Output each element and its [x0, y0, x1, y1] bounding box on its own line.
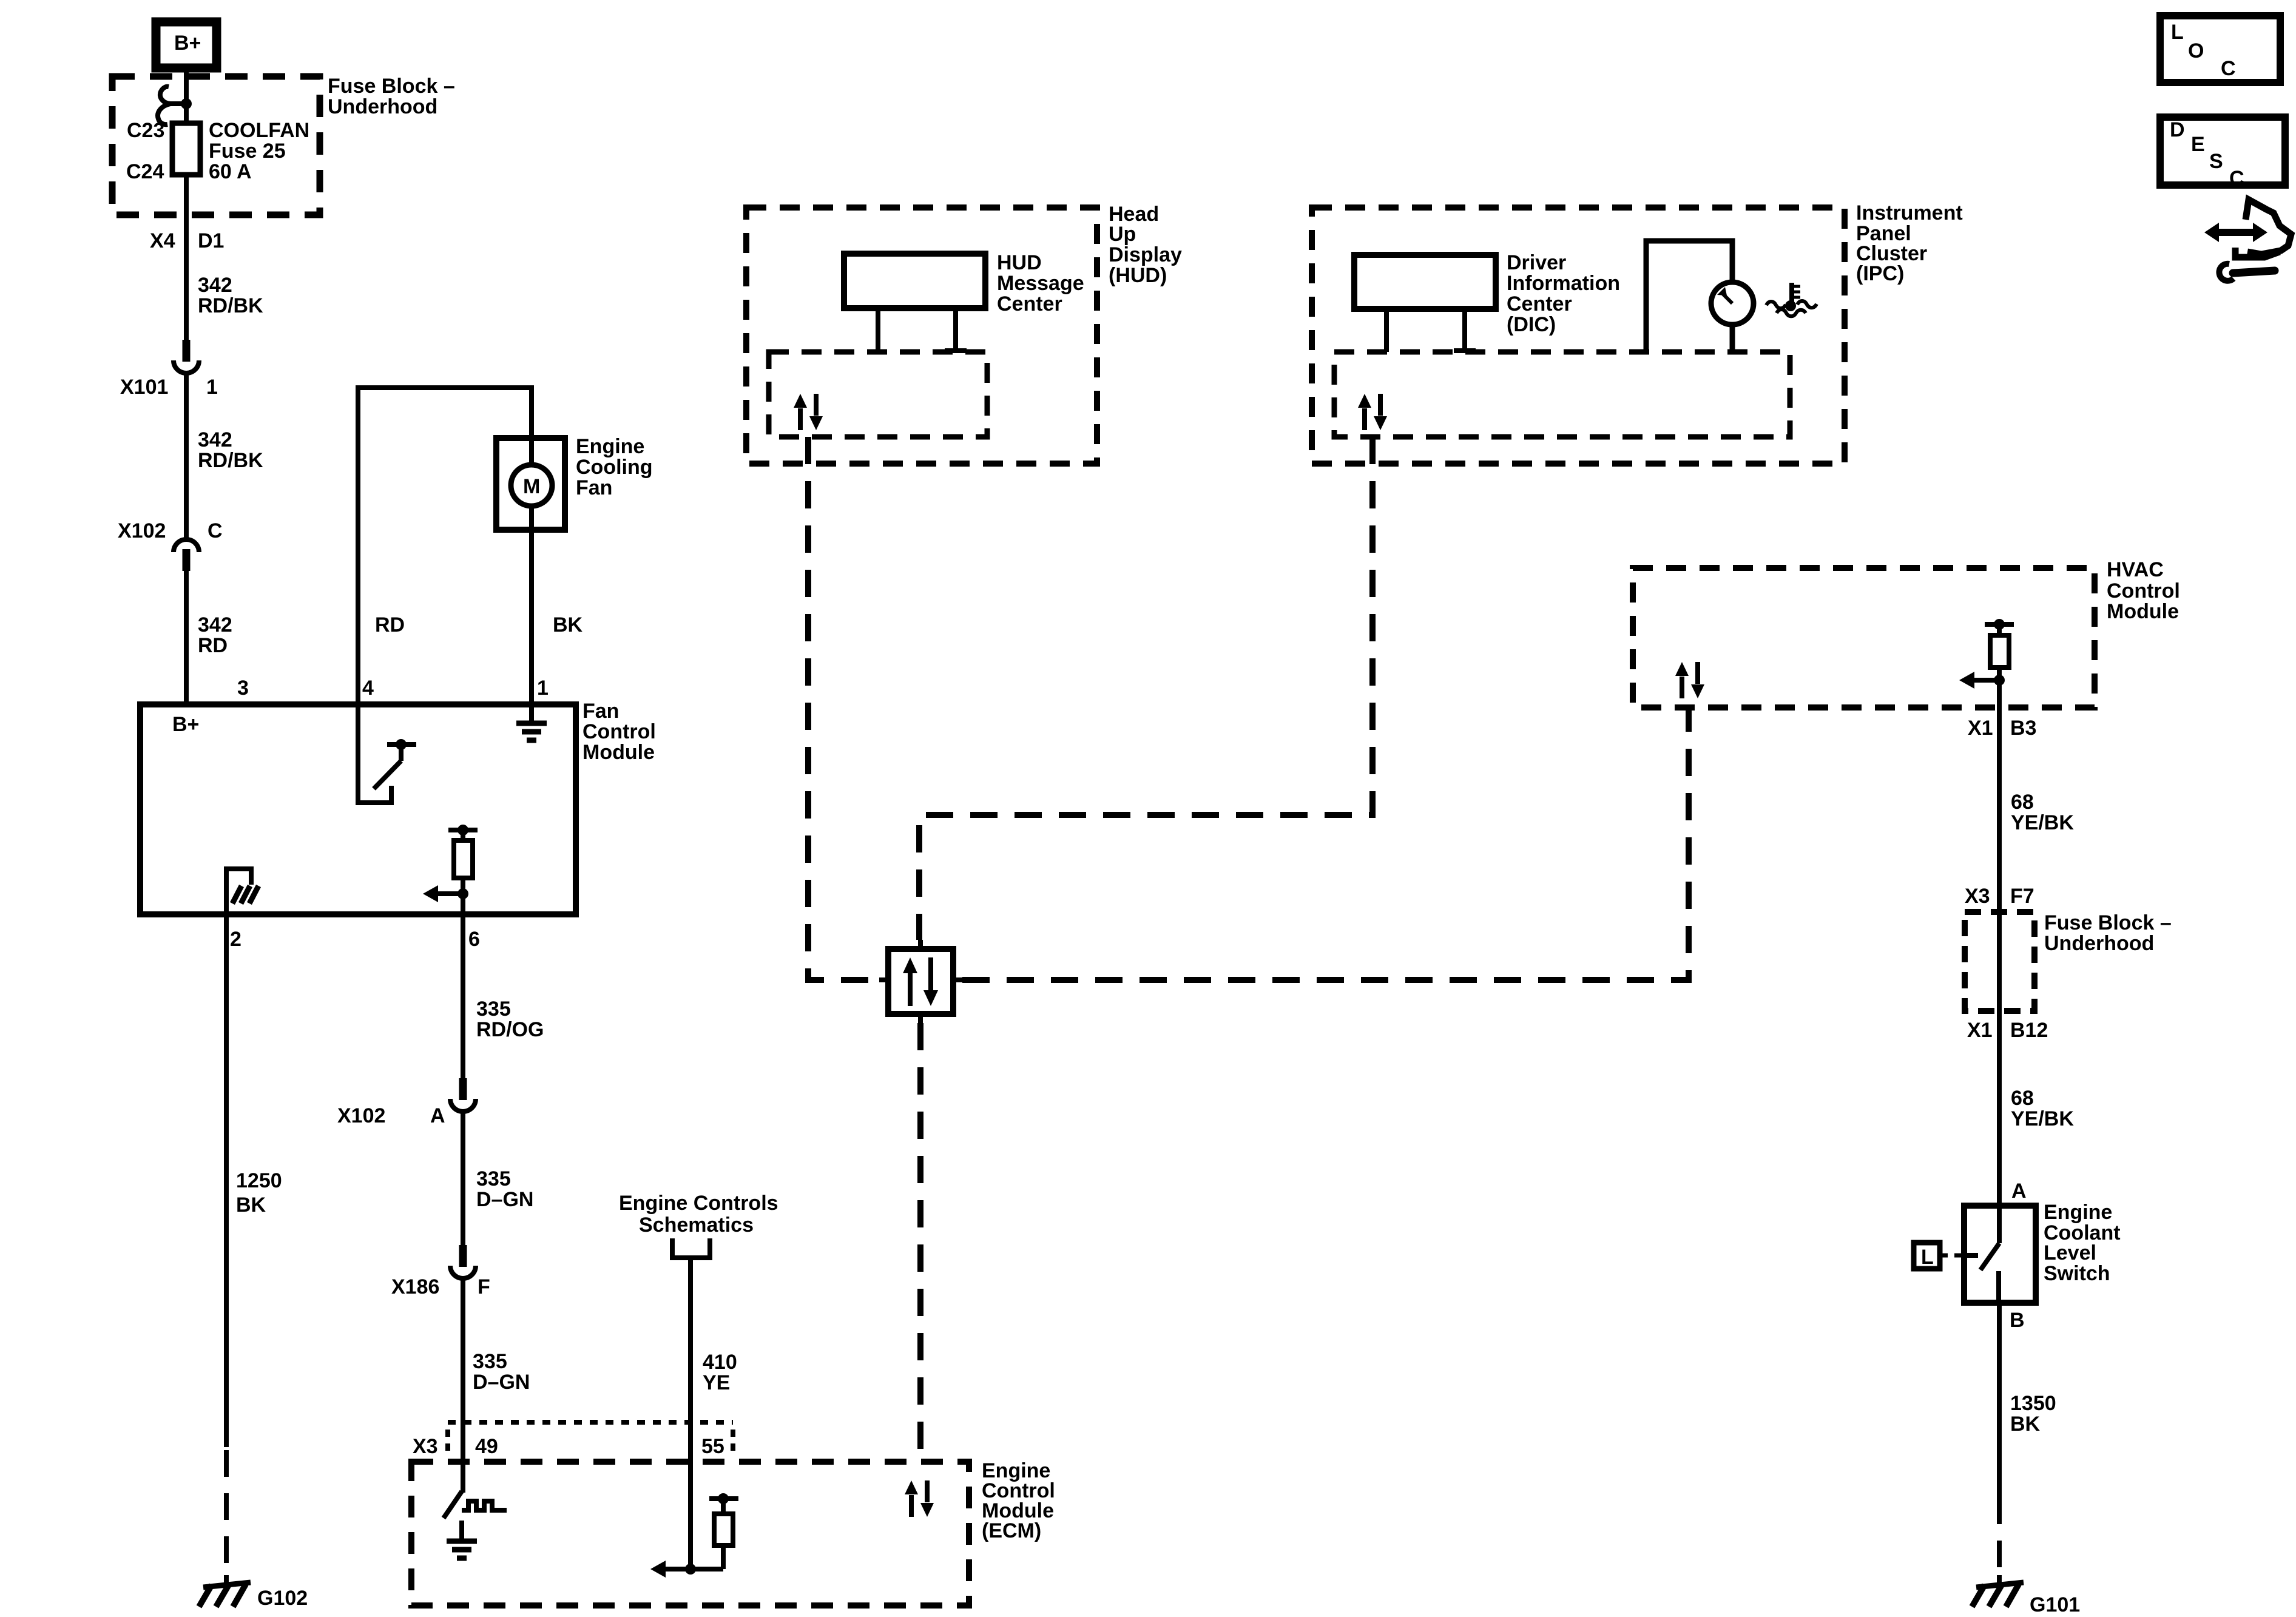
svg-text:X101: X101 — [120, 376, 168, 399]
svg-text:Driver: Driver — [1507, 251, 1566, 274]
svg-text:60 A: 60 A — [209, 160, 252, 183]
serial data arrows inside IPC — [1358, 394, 1387, 430]
svg-text:Control: Control — [582, 720, 656, 743]
svg-text:342: 342 — [198, 428, 232, 451]
serial data arrows inside HUD — [794, 394, 823, 430]
pull-up resistor and signal arrow inside HVAC — [1959, 619, 2014, 707]
wire RD from FCM pin 4 to fan — [358, 388, 532, 704]
svg-text:Fuse 25: Fuse 25 — [209, 140, 286, 163]
wire fuse to X101 (342 RD/BK) — [184, 175, 189, 340]
svg-text:Display: Display — [1109, 243, 1182, 266]
wire 335 D-GN X102 to X186 — [461, 1112, 465, 1245]
svg-text:1: 1 — [206, 376, 218, 399]
svg-text:49: 49 — [475, 1435, 498, 1458]
svg-text:342: 342 — [198, 613, 232, 636]
svg-text:G101: G101 — [2030, 1593, 2080, 1616]
svg-text:Engine: Engine — [576, 435, 644, 458]
svg-text:2: 2 — [230, 928, 241, 951]
svg-text:X1: X1 — [1968, 717, 1993, 740]
wire label 1350 BK — [2010, 1392, 2056, 1436]
svg-text:68: 68 — [2011, 791, 2034, 814]
serial data arrows inside ECM — [905, 1480, 934, 1517]
fuse block label — [2044, 911, 2172, 955]
svg-text:Up: Up — [1109, 223, 1136, 246]
connector X102 pin C — [118, 519, 223, 571]
wire label 335 D-GN — [476, 1167, 533, 1211]
svg-text:(HUD): (HUD) — [1109, 264, 1167, 287]
svg-text:Fuse Block –: Fuse Block – — [2044, 911, 2172, 934]
connector X102 pin A — [337, 1078, 476, 1127]
svg-text:B+: B+ — [174, 32, 201, 55]
svg-text:342: 342 — [198, 274, 232, 297]
svg-text:C: C — [208, 519, 223, 542]
svg-text:X3: X3 — [413, 1435, 438, 1458]
wire X101 to X102 (342 RD/BK) — [184, 373, 189, 539]
fuse block label — [328, 75, 455, 118]
svg-text:Switch: Switch — [2044, 1262, 2110, 1285]
LOC navigation box — [2160, 16, 2280, 83]
wire 335 D-GN X186 to ECM pin 49 — [461, 1278, 465, 1493]
driver information center label — [1507, 251, 1620, 336]
svg-text:A: A — [2011, 1180, 2027, 1203]
svg-text:Level: Level — [2044, 1241, 2096, 1264]
fan motor M — [511, 438, 552, 530]
svg-text:X3: X3 — [1965, 885, 1990, 908]
svg-text:1350: 1350 — [2010, 1392, 2056, 1415]
svg-text:C24: C24 — [126, 160, 164, 183]
DESC navigation box — [2160, 117, 2285, 190]
wire 410 YE to ECM pin 55 — [688, 1258, 693, 1569]
svg-text:B: B — [2010, 1309, 2025, 1332]
serial data arrows inside junction box — [903, 957, 938, 1006]
connector row X3 at ECM — [413, 1422, 733, 1458]
svg-text:S: S — [2209, 150, 2223, 173]
svg-text:HVAC: HVAC — [2107, 558, 2164, 581]
wire 335 RD/OG from pin 6 — [461, 914, 465, 1078]
serial data arrows inside HVAC — [1675, 662, 1704, 698]
wire label 68 YE/BK — [2011, 1087, 2074, 1130]
driver switch to ground inside ECM (pin 49) — [444, 1462, 507, 1558]
wire 68 YE/BK to coolant level switch — [1997, 1011, 2002, 1205]
serial data junction box — [879, 940, 962, 1023]
svg-text:C: C — [2221, 57, 2236, 80]
head up display label — [1109, 203, 1182, 287]
B+ battery positive voltage box — [156, 22, 217, 68]
svg-text:RD: RD — [375, 613, 405, 636]
svg-text:6: 6 — [468, 928, 480, 951]
svg-text:X4: X4 — [150, 229, 175, 252]
wire B+ to fuse block — [184, 68, 189, 123]
HUD message center display box — [844, 254, 985, 352]
dashed ground lead to G102 — [224, 1450, 229, 1573]
svg-text:Schematics: Schematics — [639, 1214, 754, 1237]
svg-text:D–GN: D–GN — [476, 1188, 533, 1211]
fan control module box — [140, 704, 576, 914]
pin labels X1 B3 — [1968, 717, 2036, 740]
svg-text:A: A — [430, 1104, 445, 1127]
svg-text:335: 335 — [476, 1167, 511, 1190]
level sensor symbol L — [1914, 1243, 1964, 1269]
HUD outer dashed box — [746, 208, 1097, 464]
svg-text:F7: F7 — [2010, 885, 2034, 908]
pin labels X4 D1 — [150, 229, 224, 252]
svg-text:Cooling: Cooling — [576, 456, 653, 479]
wire 1250 BK from pin 2 — [224, 914, 229, 1447]
wire label 342 RD/BK — [198, 274, 263, 317]
HVAC label — [2107, 558, 2180, 623]
relay switch inside FCM (pin 4) — [358, 704, 416, 803]
svg-text:Module: Module — [582, 741, 655, 764]
svg-text:B+: B+ — [172, 713, 199, 736]
svg-text:335: 335 — [476, 998, 511, 1021]
DIC display box — [1354, 255, 1496, 352]
svg-text:L: L — [1921, 1246, 1934, 1269]
coolant temperature symbol — [1766, 283, 1817, 316]
svg-text:M: M — [523, 475, 540, 498]
HUD serial data dashed box — [769, 352, 987, 437]
svg-text:Engine Controls: Engine Controls — [619, 1192, 778, 1215]
IPC outer dashed box — [1312, 208, 1845, 464]
svg-text:RD/BK: RD/BK — [198, 449, 263, 472]
wire label 342 RD — [198, 613, 232, 657]
svg-text:Underhood: Underhood — [328, 95, 437, 118]
svg-text:Underhood: Underhood — [2044, 932, 2154, 955]
fuse COOLFAN Fuse 25 60 A — [126, 119, 309, 183]
svg-text:BK: BK — [236, 1193, 266, 1217]
ground G102 — [199, 1575, 308, 1610]
wire 1350 BK from switch — [1997, 1303, 2002, 1497]
svg-text:D–GN: D–GN — [473, 1371, 530, 1394]
svg-text:RD: RD — [198, 634, 228, 657]
pin labels X1 B12 — [1967, 1019, 2048, 1042]
bus bar symbol — [158, 87, 186, 124]
chassis ground inside FCM (pin 2) — [226, 869, 258, 914]
HVAC control module dashed box — [1633, 568, 2095, 707]
wire label 410 YE — [703, 1351, 737, 1394]
svg-text:Engine: Engine — [2044, 1201, 2112, 1224]
svg-text:Instrument: Instrument — [1856, 201, 1963, 224]
junction dot at bus bar — [181, 98, 192, 109]
dashed ground lead to G101 — [1997, 1497, 2002, 1573]
svg-text:Control: Control — [2107, 579, 2180, 603]
svg-text:BK: BK — [553, 613, 583, 636]
svg-text:1250: 1250 — [236, 1169, 282, 1192]
IPC serial data dashed box — [1334, 352, 1790, 437]
svg-text:X1: X1 — [1967, 1019, 1993, 1042]
svg-text:L: L — [2171, 21, 2184, 44]
fan control module label — [582, 700, 656, 764]
ground symbol inside FCM at pin 1 — [516, 704, 547, 740]
pull-up resistor and signal arrow inside ECM (pin 55) — [650, 1493, 738, 1578]
engine controls schematics off-page reference — [619, 1192, 778, 1258]
engine cooling fan label — [576, 435, 653, 499]
svg-text:Information: Information — [1507, 272, 1620, 295]
svg-text:4: 4 — [362, 677, 374, 700]
connector X186 pin F — [391, 1245, 490, 1298]
svg-text:COOLFAN: COOLFAN — [209, 119, 309, 142]
ground G101 — [1972, 1575, 2080, 1616]
coolant gauge with needle — [1711, 282, 1754, 325]
fuse block - underhood dashed box — [112, 76, 320, 215]
engine cooling fan box — [496, 438, 565, 530]
svg-text:B3: B3 — [2010, 717, 2036, 740]
svg-text:68: 68 — [2011, 1087, 2034, 1110]
engine coolant level switch box — [1964, 1206, 2036, 1303]
wire BK fan to FCM pin 1 — [529, 530, 534, 704]
engine coolant level switch label — [2044, 1201, 2121, 1285]
svg-text:Center: Center — [997, 292, 1062, 316]
wire label 68 YE/BK — [2011, 791, 2074, 834]
wire 68 YE/BK HVAC to fuse block — [1997, 707, 2002, 912]
fuse block - underhood pass-through dashed box — [1965, 912, 2034, 1011]
svg-text:410: 410 — [703, 1351, 737, 1374]
wire label 335 RD/OG — [476, 998, 544, 1041]
svg-text:O: O — [2188, 39, 2204, 62]
svg-text:55: 55 — [701, 1435, 724, 1458]
svg-text:(IPC): (IPC) — [1856, 262, 1904, 285]
svg-text:B12: B12 — [2010, 1019, 2048, 1042]
instrument panel cluster label — [1856, 201, 1963, 285]
svg-text:YE: YE — [703, 1371, 730, 1394]
svg-text:D: D — [2170, 118, 2185, 141]
svg-text:RD/BK: RD/BK — [198, 294, 263, 317]
svg-text:X102: X102 — [337, 1104, 385, 1127]
svg-text:(ECM): (ECM) — [982, 1519, 1041, 1542]
wire label 1250 BK — [236, 1169, 282, 1217]
HUD message center label — [997, 251, 1084, 316]
svg-text:Message: Message — [997, 272, 1084, 295]
svg-text:3: 3 — [237, 677, 249, 700]
resistor with pull-up inside FCM (pin 6) — [423, 825, 478, 914]
svg-text:1: 1 — [537, 677, 549, 700]
svg-text:Fuse Block –: Fuse Block – — [328, 75, 455, 98]
svg-text:HUD: HUD — [997, 251, 1042, 274]
svg-text:(DIC): (DIC) — [1507, 313, 1556, 336]
svg-text:E: E — [2191, 133, 2205, 156]
switch contacts inside coolant level switch — [1964, 1205, 1999, 1303]
coolant gauge box — [1646, 241, 1732, 351]
svg-text:Module: Module — [2107, 600, 2179, 623]
wire label 342 RD/BK — [198, 428, 263, 472]
serial data line to HVAC — [962, 707, 1689, 980]
engine control module ECM dashed box — [411, 1462, 969, 1605]
schematic navigation icon (arrow and wrench) — [2204, 200, 2291, 281]
serial data line from HUD — [808, 437, 879, 980]
svg-text:RD/OG: RD/OG — [476, 1018, 544, 1041]
svg-text:335: 335 — [473, 1350, 507, 1373]
connector X101 pin 1 — [120, 340, 218, 399]
serial data line to ECM — [917, 1023, 923, 1462]
serial data line from IPC (DIC) — [919, 437, 1373, 940]
svg-text:X186: X186 — [391, 1275, 439, 1298]
wire through fuse block — [1997, 912, 2002, 1011]
svg-text:Fan: Fan — [582, 700, 619, 723]
ECM label — [982, 1459, 1055, 1542]
svg-text:C23: C23 — [127, 119, 164, 142]
svg-text:Fan: Fan — [576, 476, 612, 499]
wire X102 to FCM pin 3 (342 RD) — [184, 570, 189, 704]
svg-text:C: C — [2229, 167, 2244, 190]
svg-text:X102: X102 — [118, 519, 166, 542]
svg-text:D1: D1 — [198, 229, 224, 252]
svg-text:BK: BK — [2010, 1413, 2041, 1436]
svg-text:YE/BK: YE/BK — [2011, 1107, 2074, 1130]
svg-text:G102: G102 — [257, 1587, 308, 1610]
svg-text:YE/BK: YE/BK — [2011, 811, 2074, 834]
wire label 335 D-GN — [473, 1350, 530, 1394]
svg-text:Center: Center — [1507, 292, 1572, 316]
pin labels X3 F7 — [1965, 885, 2034, 908]
svg-text:F: F — [478, 1275, 490, 1298]
